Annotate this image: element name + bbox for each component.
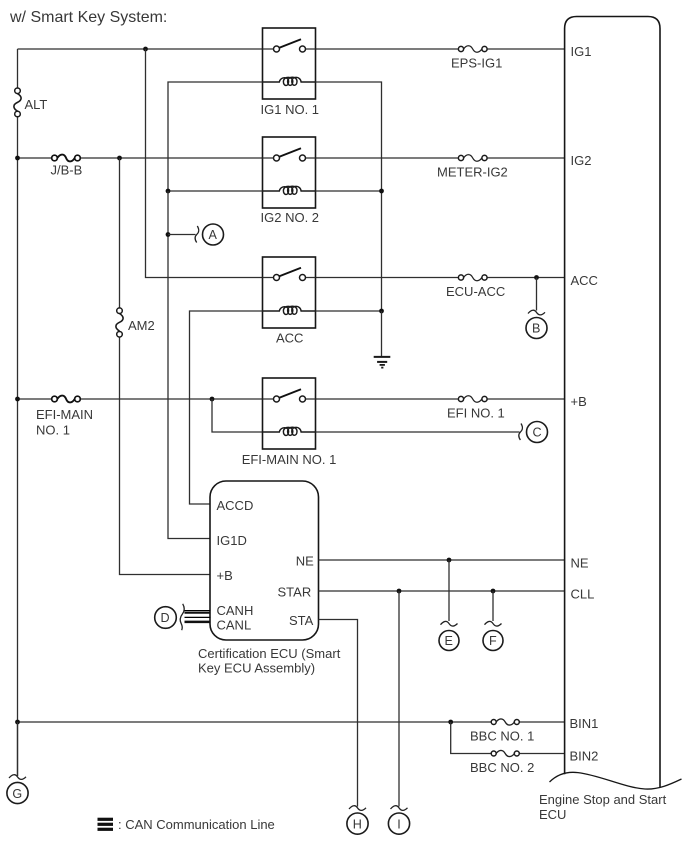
relay IG2 NO. 2 (261, 137, 320, 225)
svg-text:G: G (12, 787, 22, 801)
svg-text:ALT: ALT (25, 97, 48, 112)
fuse J/B-B (51, 155, 83, 178)
connector C (519, 422, 548, 443)
svg-text:STA: STA (289, 613, 314, 628)
junction: coil tap (212,399) (210, 397, 215, 402)
connector G (7, 775, 28, 804)
fuse EPS-IG1 (451, 46, 502, 71)
junction: left bus at BIN1 row (15, 720, 20, 725)
svg-text:D: D (161, 611, 170, 625)
svg-text:BBC NO. 1: BBC NO. 1 (470, 729, 534, 744)
wire: I branch down (398, 591, 400, 807)
wire: left bus down to G (17, 722, 19, 776)
svg-text:ECU: ECU (539, 807, 566, 822)
svg-text:+B: +B (217, 568, 233, 583)
svg-text:H: H (353, 817, 362, 831)
junction: left bus at +B row (15, 397, 20, 402)
svg-text:ACC: ACC (276, 331, 303, 346)
junction: B tap (536.5,277.5) (534, 275, 539, 280)
wire: F branch down (492, 591, 494, 621)
junction: A tap (168,234.5) (166, 232, 171, 237)
wire: ACC coil left to ACCD (190, 311, 263, 504)
svg-text:CLL: CLL (571, 587, 595, 602)
junction: left bus at J/B-B row (15, 156, 20, 161)
fuse BBC NO. 1 (470, 719, 534, 744)
svg-text:B: B (532, 322, 540, 336)
svg-text:EFI-MAIN: EFI-MAIN (36, 407, 93, 422)
wire: B branch down (536, 278, 538, 311)
wire: ACC coil right to ground vertical (316, 310, 382, 312)
title: w/ Smart Key System: (9, 9, 167, 26)
svg-text:IG2: IG2 (571, 153, 592, 168)
connector A (195, 224, 223, 245)
svg-text:EFI NO. 1: EFI NO. 1 (447, 406, 505, 421)
wire: IG1 coil left to vertical x=168 (168, 82, 263, 191)
wire: IG1 switch output to ECU (316, 48, 565, 50)
wire: EFI-MAIN coil right to connector C (316, 431, 520, 433)
fuse EFI-MAIN NO. 1 (36, 396, 93, 438)
junction: (381.5,311) (379, 309, 384, 314)
svg-text:+B: +B (571, 394, 587, 409)
relay IG1 NO. 1 (261, 28, 320, 117)
svg-text:J/B-B: J/B-B (51, 163, 83, 178)
wire: IG2 switch output to ECU (316, 157, 565, 159)
junction: AM2 tap (119.5,158) (117, 156, 122, 161)
fusible link AM2 (116, 308, 155, 337)
svg-text:CANH: CANH (217, 603, 254, 618)
junction: (168,190.5) (166, 189, 171, 194)
svg-text:ECU-ACC: ECU-ACC (446, 284, 505, 299)
fuse EFI NO. 1 (447, 396, 505, 421)
fuse BBC NO. 2 (470, 750, 534, 775)
wire: left bus vertical (x=17.5) (17, 49, 19, 776)
svg-text:ACC: ACC (571, 273, 598, 288)
svg-text:F: F (489, 634, 497, 648)
wire: +B row left (y=399) (18, 398, 263, 400)
svg-text:EFI-MAIN NO. 1: EFI-MAIN NO. 1 (242, 452, 337, 467)
wire: IG2 coil right stub (316, 190, 382, 192)
wire: A branch (168, 234, 196, 236)
svg-text:BIN1: BIN1 (570, 716, 599, 731)
wire: EFI-MAIN switch output to ECU (316, 398, 565, 400)
junction: top bus to ACC feed (145.5,49) (143, 47, 148, 52)
wire: J/B-B row horizontal (y=158) (18, 157, 263, 159)
svg-text:I: I (397, 817, 401, 831)
svg-text:Key ECU Assembly): Key ECU Assembly) (198, 661, 315, 676)
fuse METER-IG2 (437, 155, 508, 180)
relay EFI-MAIN NO. 1 (242, 378, 337, 467)
svg-text:AM2: AM2 (128, 318, 155, 333)
svg-text:w/ Smart Key System:: w/ Smart Key System: (9, 9, 167, 26)
wire: ACC switch output to ECU (316, 277, 565, 279)
fuse ECU-ACC (446, 274, 505, 299)
certification ECU box (210, 481, 319, 640)
legend: CAN Communication Line (98, 817, 275, 832)
svg-text:METER-IG2: METER-IG2 (437, 165, 508, 180)
wire: BIN1 row horizontal (y=722) (18, 721, 565, 723)
wire: IG1 row horizontal (y=49) (18, 48, 263, 50)
CAN bus lines CANH/CANL (185, 611, 211, 622)
ground (374, 357, 391, 368)
wire: vertical feed x=145.5 to ACC relay switch (146, 49, 263, 278)
wire: tap down to EFI-MAIN coil (212, 399, 263, 432)
svg-text:C: C (533, 426, 542, 440)
svg-text:EPS-IG1: EPS-IG1 (451, 56, 502, 71)
svg-text:E: E (445, 634, 453, 648)
wire: AM2 vertical x=119.5 down to +B pin (120, 158, 211, 575)
svg-text:: CAN Communication Line: : CAN Communication Line (118, 817, 275, 832)
connector I (388, 806, 409, 834)
svg-text:NE: NE (296, 554, 314, 569)
svg-text:IG1: IG1 (571, 44, 592, 59)
connector B (526, 310, 547, 338)
wire: BIN2 branch (451, 722, 565, 754)
wire: E branch down (448, 560, 450, 621)
relay ACC (263, 257, 316, 346)
wire: STAR pin to ECU (319, 590, 565, 592)
fusible link ALT (14, 88, 48, 117)
svg-text:ACCD: ACCD (217, 498, 254, 513)
svg-text:NE: NE (571, 556, 589, 571)
wire: STA pin down to H (319, 620, 358, 807)
svg-text:CANL: CANL (217, 617, 252, 632)
Engine Stop and Start ECU box (550, 17, 682, 790)
connector D (155, 604, 185, 630)
svg-text:NO. 1: NO. 1 (36, 423, 70, 438)
wire: down to ground (381, 311, 383, 357)
svg-text:BBC NO. 2: BBC NO. 2 (470, 760, 534, 775)
junction: I tap (399,591) (397, 589, 402, 594)
wire: vertical x=168 down to IG1D (168, 191, 210, 539)
connector F (483, 621, 503, 650)
svg-text:IG1D: IG1D (217, 533, 247, 548)
wire: IG1 coil right to vertical x=381.5 (316, 82, 382, 311)
svg-text:A: A (209, 228, 218, 242)
junction: E tap (449,560) (447, 558, 452, 563)
connector E (439, 621, 459, 650)
svg-text:Certification ECU (Smart: Certification ECU (Smart (198, 646, 341, 661)
wire: IG2 coil left stub (168, 190, 263, 192)
svg-text:IG2 NO. 2: IG2 NO. 2 (261, 210, 320, 225)
connector H (347, 806, 368, 834)
svg-text:STAR: STAR (278, 585, 312, 600)
svg-text:BIN2: BIN2 (570, 749, 599, 764)
svg-text:IG1 NO. 1: IG1 NO. 1 (261, 102, 320, 117)
svg-text:Engine Stop and Start: Engine Stop and Start (539, 792, 667, 807)
junction: (381.5,191) (379, 189, 384, 194)
wire: NE pin to ECU (319, 559, 565, 561)
junction: BBC branch (450.7,722) (448, 720, 453, 725)
junction: F tap (493,591) (491, 589, 496, 594)
